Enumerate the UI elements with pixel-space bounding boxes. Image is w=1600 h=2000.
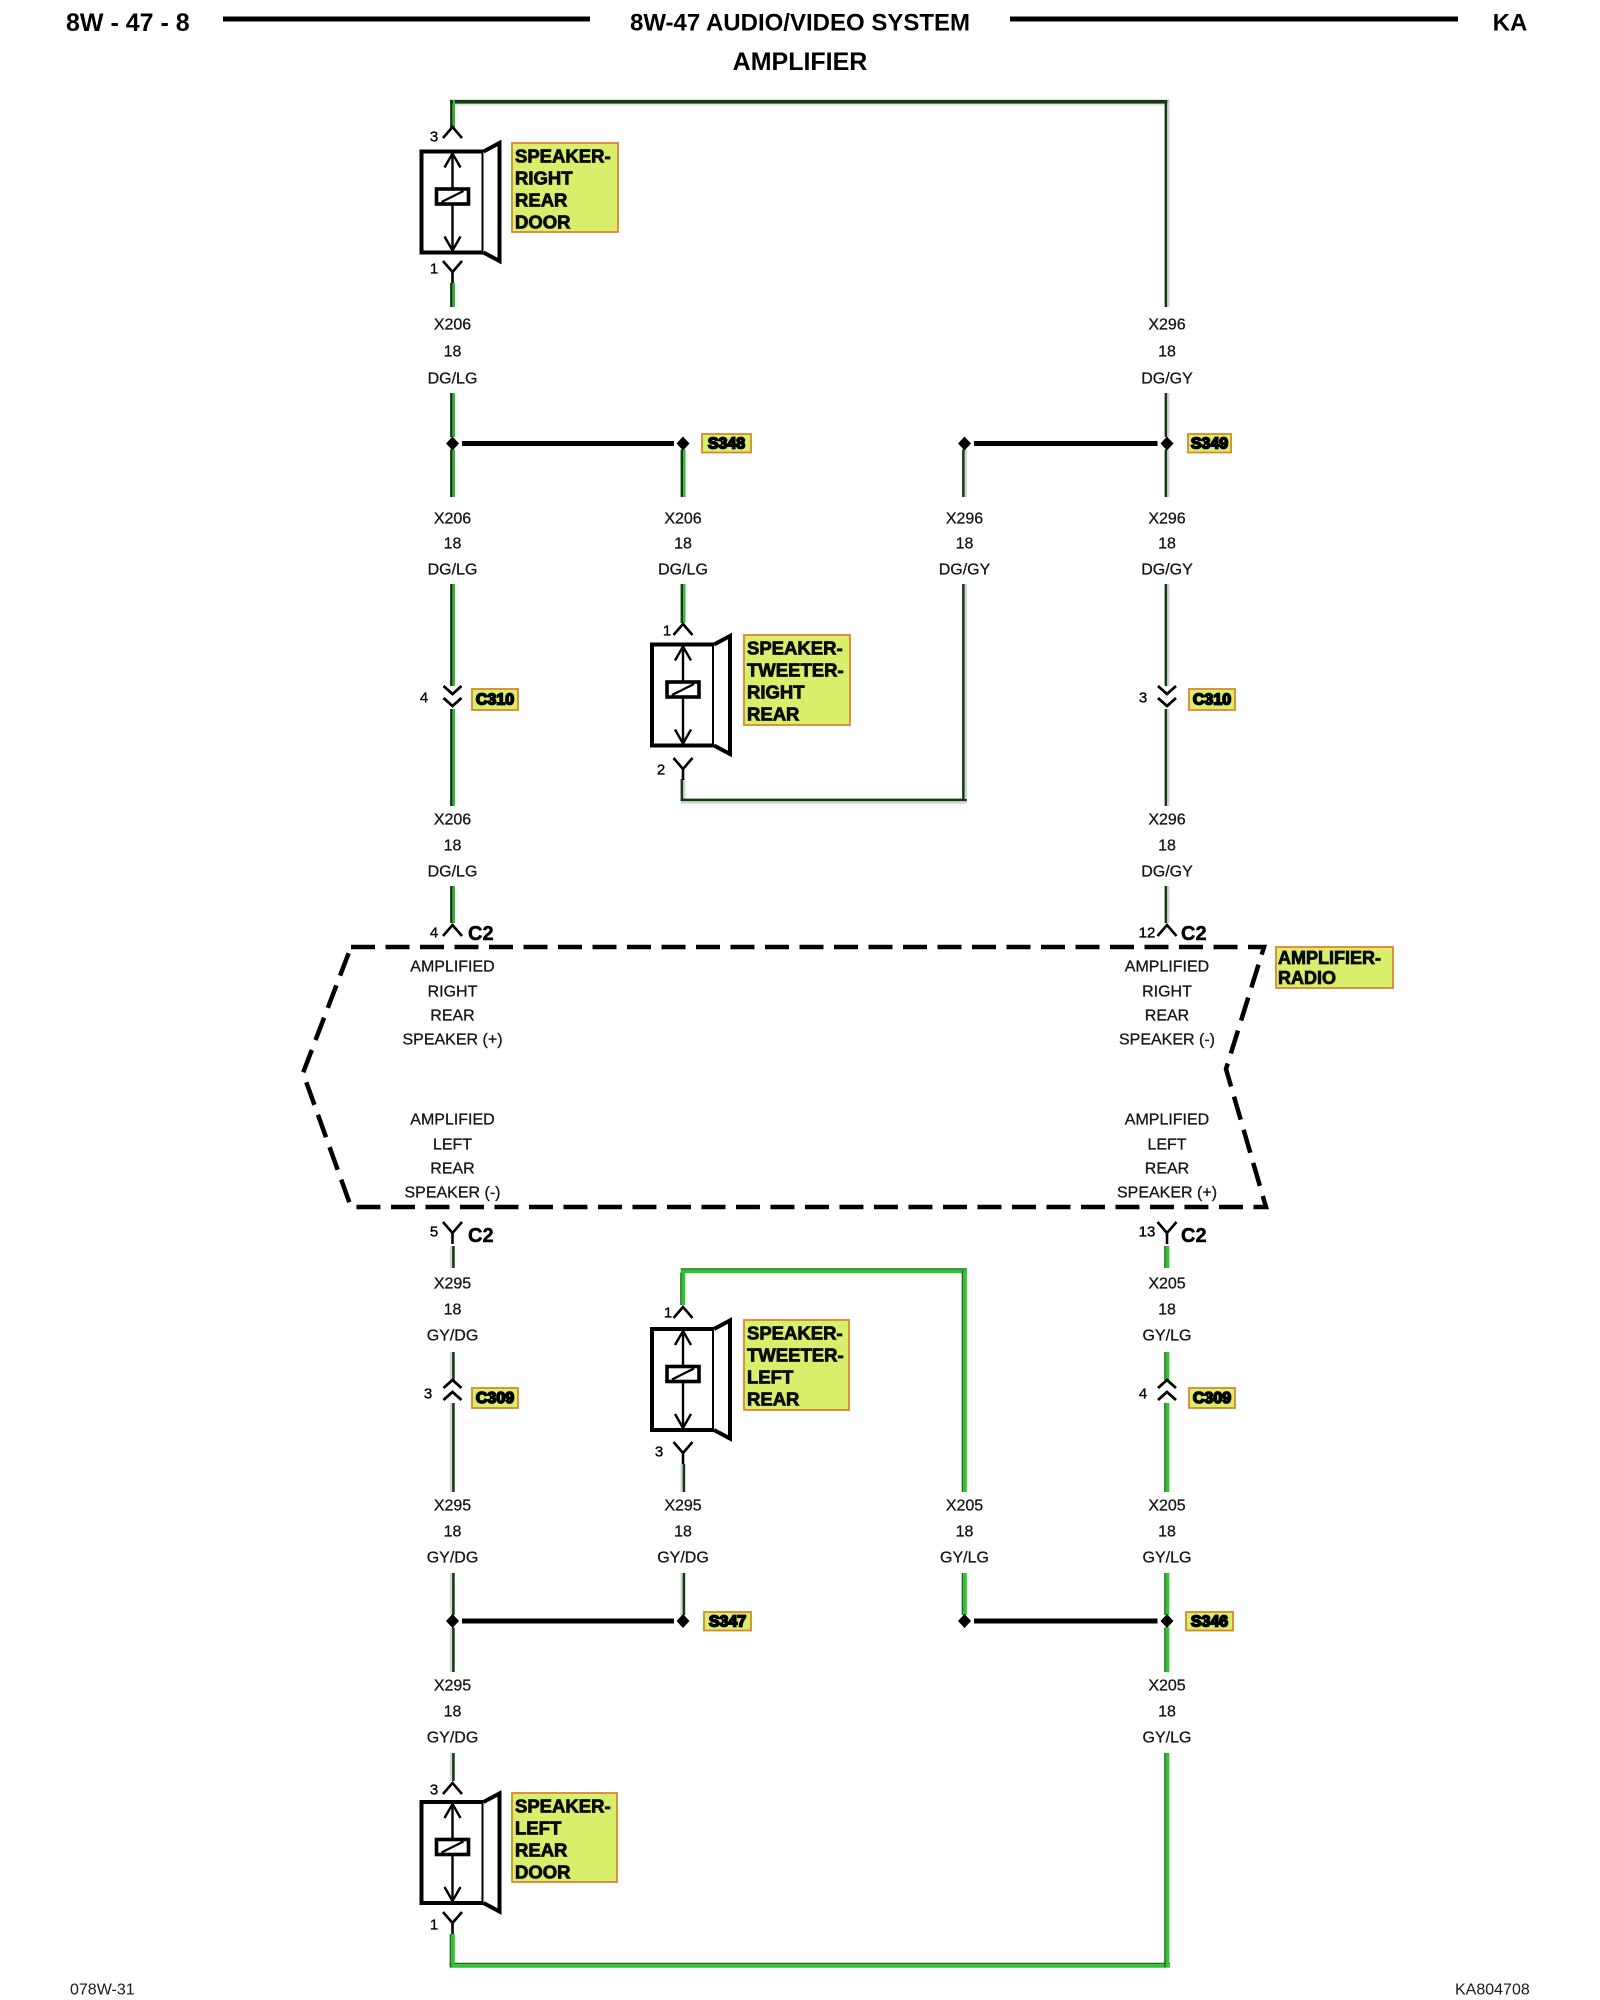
component label speaker tweeter left rear <box>744 1320 849 1410</box>
wire X296 right column top segment <box>1166 100 1169 307</box>
wire X296 stub below S349 left node <box>963 450 966 498</box>
svg-text:AMPLIFIED: AMPLIFIED <box>410 1112 494 1129</box>
svg-text:C309: C309 <box>1193 1390 1231 1407</box>
svg-text:RIGHT: RIGHT <box>428 984 478 1001</box>
svg-text:REAR: REAR <box>430 1161 474 1178</box>
wire X205 above S346 junction <box>1165 1573 1168 1615</box>
wire X206 below S348 junction <box>451 450 454 498</box>
wire label X205 below C309 <box>1143 1498 1192 1567</box>
svg-text:18: 18 <box>956 1524 974 1541</box>
svg-text:SPEAKER-: SPEAKER- <box>515 146 611 167</box>
connector pin 3 speaker right rear door <box>443 127 462 138</box>
wire GY/LG tweeter left pin 1 up to corner <box>681 1273 684 1306</box>
svg-text:S346: S346 <box>1191 1613 1228 1630</box>
wire X205 below C309 <box>1165 1403 1168 1492</box>
svg-text:GY/DG: GY/DG <box>427 1328 479 1345</box>
wire X296 below S349 junction <box>1166 450 1169 498</box>
svg-text:AMPLIFIER-: AMPLIFIER- <box>1278 948 1381 968</box>
svg-text:X205: X205 <box>946 1498 983 1515</box>
svg-text:3: 3 <box>430 129 438 146</box>
svg-text:5: 5 <box>430 1224 438 1241</box>
svg-text:X295: X295 <box>434 1276 471 1293</box>
svg-text:C2: C2 <box>468 1225 494 1247</box>
svg-text:S349: S349 <box>1191 435 1228 452</box>
svg-text:LEFT: LEFT <box>747 1367 794 1388</box>
connector pin 1 speaker right rear door <box>443 261 462 272</box>
wire label X205 below C2 <box>1143 1276 1192 1345</box>
speaker right rear door <box>422 143 500 261</box>
wire speaker left rear door pin 1 down <box>451 1934 454 1967</box>
svg-text:DG/LG: DG/LG <box>428 864 478 881</box>
wire X295 below C309 <box>451 1403 454 1492</box>
svg-text:4: 4 <box>430 925 438 942</box>
svg-text:LEFT: LEFT <box>433 1137 472 1154</box>
component label speaker right rear door <box>512 143 618 233</box>
svg-text:X206: X206 <box>434 317 471 334</box>
wire X295 above S347 right node <box>681 1573 684 1615</box>
wire X206 to tweeter right pin 1 <box>682 584 685 623</box>
wire X295 above C309 <box>451 1352 454 1380</box>
svg-text:S348: S348 <box>708 435 745 452</box>
svg-text:AMPLIFIED: AMPLIFIED <box>1125 959 1209 976</box>
svg-text:18: 18 <box>1158 1524 1176 1541</box>
svg-text:X205: X205 <box>1148 1678 1185 1695</box>
splice line S347 <box>462 1619 674 1624</box>
wire X205 stub above S346 left node <box>963 1573 966 1615</box>
wire X206 between label and C310 <box>451 584 454 686</box>
wire label X206 branch <box>658 511 708 579</box>
wire X295 above S347 junction <box>451 1573 454 1615</box>
svg-text:1: 1 <box>430 1917 438 1934</box>
connector label C310 right <box>1189 689 1235 710</box>
connector label C310 left <box>472 689 518 710</box>
svg-text:REAR: REAR <box>1145 1161 1189 1178</box>
svg-text:18: 18 <box>444 838 462 855</box>
svg-text:GY/LG: GY/LG <box>1143 1730 1192 1747</box>
svg-text:TWEETER-: TWEETER- <box>747 1345 844 1366</box>
wire X295 tweeter left pin 3 down <box>681 1464 684 1492</box>
svg-text:C310: C310 <box>1193 692 1231 709</box>
net amplified right rear speaker plus <box>402 959 502 1049</box>
svg-text:18: 18 <box>1158 1704 1176 1721</box>
connector C2 pin 5 <box>443 1222 462 1233</box>
wire label X206 below S348 <box>428 511 478 579</box>
svg-text:078W-31: 078W-31 <box>70 1982 135 1999</box>
svg-text:REAR: REAR <box>515 190 567 211</box>
wire label X295 below C309 <box>427 1498 479 1567</box>
wire X206 above C2 pin 4 <box>451 886 454 923</box>
svg-text:REAR: REAR <box>515 1840 567 1861</box>
wire label X295 below S347 <box>427 1678 479 1747</box>
svg-text:RIGHT: RIGHT <box>1142 984 1192 1001</box>
wire DG/LG speaker right rear door pin 3 to top corner <box>451 100 454 128</box>
svg-text:SPEAKER (-): SPEAKER (-) <box>1119 1032 1215 1049</box>
speaker tweeter right rear <box>652 636 730 754</box>
svg-text:8W-47 AUDIO/VIDEO SYSTEM: 8W-47 AUDIO/VIDEO SYSTEM <box>630 10 970 37</box>
svg-text:18: 18 <box>956 536 974 553</box>
svg-text:3: 3 <box>424 1386 432 1403</box>
svg-text:TWEETER-: TWEETER- <box>747 660 844 681</box>
svg-text:X206: X206 <box>434 511 471 528</box>
connector C310 pin 4 left <box>444 686 462 706</box>
wire X205 below C2 pin 13 <box>1165 1246 1168 1268</box>
connector label C309 left <box>472 1388 518 1408</box>
connector pin 3 tweeter left rear <box>674 1442 693 1453</box>
splice label S346 <box>1186 1612 1233 1631</box>
svg-text:X295: X295 <box>664 1498 701 1515</box>
svg-text:GY/DG: GY/DG <box>427 1550 479 1567</box>
svg-text:REAR: REAR <box>747 704 799 725</box>
wire GY/LG corner run to mid-right column <box>681 1269 967 1272</box>
node S347 left junction <box>446 1614 459 1628</box>
svg-text:18: 18 <box>444 1704 462 1721</box>
node S349 right junction <box>1161 437 1174 451</box>
svg-text:AMPLIFIED: AMPLIFIED <box>1125 1112 1209 1129</box>
svg-text:DG/GY: DG/GY <box>939 562 991 579</box>
wire X296 above S349 junction <box>1166 393 1169 437</box>
net amplified left rear speaker plus <box>1117 1112 1217 1202</box>
wire label X296 below C310 <box>1141 812 1193 881</box>
svg-text:S347: S347 <box>709 1613 746 1630</box>
wire label X206 below C310 <box>428 812 478 881</box>
splice line S348 <box>462 441 674 446</box>
svg-text:X206: X206 <box>434 812 471 829</box>
svg-text:C309: C309 <box>476 1390 514 1407</box>
svg-text:KA804708: KA804708 <box>1455 1982 1530 1999</box>
node S346 left junction <box>958 1614 971 1628</box>
wire label X206 top <box>428 317 478 388</box>
connector pin 1 tweeter left rear <box>674 1307 693 1318</box>
svg-text:RIGHT: RIGHT <box>515 168 573 189</box>
svg-text:DG/GY: DG/GY <box>1141 371 1193 388</box>
node S348 right junction <box>677 437 690 451</box>
connector pin 1 tweeter right rear <box>674 624 693 635</box>
svg-text:1: 1 <box>663 623 671 640</box>
svg-text:LEFT: LEFT <box>1147 1137 1186 1154</box>
connector pin 3 speaker left rear door <box>443 1783 462 1794</box>
svg-text:X296: X296 <box>1148 317 1185 334</box>
svg-text:REAR: REAR <box>1145 1008 1189 1025</box>
svg-text:X205: X205 <box>1148 1498 1185 1515</box>
wire label X205 mid-right <box>940 1498 989 1567</box>
svg-text:X295: X295 <box>434 1678 471 1695</box>
connector C2 pin 4 <box>443 925 462 936</box>
svg-text:18: 18 <box>1158 1302 1176 1319</box>
component label speaker left rear door <box>512 1793 617 1883</box>
svg-text:18: 18 <box>444 1524 462 1541</box>
svg-text:3: 3 <box>1139 690 1147 707</box>
wire label X296 top <box>1141 317 1193 388</box>
wire tweeter right pin 2 down <box>682 779 685 801</box>
svg-text:DOOR: DOOR <box>515 1862 571 1883</box>
wire label X295 branch <box>657 1498 709 1567</box>
svg-text:X206: X206 <box>664 511 701 528</box>
wire label X295 below C2 <box>427 1276 479 1345</box>
header rule right <box>1010 17 1458 22</box>
svg-text:C2: C2 <box>1181 923 1207 945</box>
svg-text:C2: C2 <box>1181 1225 1207 1247</box>
svg-text:X296: X296 <box>1148 812 1185 829</box>
svg-text:DG/LG: DG/LG <box>428 562 478 579</box>
wire X296 above C2 pin 12 <box>1166 886 1169 923</box>
svg-text:SPEAKER (+): SPEAKER (+) <box>402 1032 502 1049</box>
wire X295 to speaker left rear door pin 3 <box>451 1753 454 1781</box>
connector C2 pin 13 <box>1158 1222 1177 1233</box>
wire label X296 mid-right <box>939 511 991 579</box>
svg-text:3: 3 <box>430 1782 438 1799</box>
wire X296 between label and C310 <box>1166 584 1169 686</box>
svg-text:18: 18 <box>674 1524 692 1541</box>
node S349 left junction <box>958 437 971 451</box>
wire GY/LG mid-right column down <box>963 1271 966 1492</box>
svg-text:SPEAKER-: SPEAKER- <box>515 1796 611 1817</box>
svg-text:2: 2 <box>657 762 665 779</box>
svg-text:DOOR: DOOR <box>515 212 571 233</box>
svg-text:SPEAKER (-): SPEAKER (-) <box>404 1185 500 1202</box>
connector label C309 right <box>1189 1388 1235 1408</box>
wire X295 below S347 junction <box>451 1628 454 1673</box>
svg-text:GY/LG: GY/LG <box>940 1550 989 1567</box>
connector C309 pin 4 right <box>1158 1380 1176 1400</box>
svg-text:13: 13 <box>1139 1224 1156 1241</box>
wire X205 long run to bottom corner <box>1165 1753 1168 1967</box>
splice label S347 <box>704 1612 751 1631</box>
svg-text:DG/LG: DG/LG <box>428 371 478 388</box>
wire label X205 below S346 <box>1143 1678 1192 1747</box>
svg-text:4: 4 <box>420 690 428 707</box>
wire X296 below C310 <box>1166 709 1169 806</box>
speaker tweeter left rear <box>652 1321 730 1439</box>
svg-text:18: 18 <box>444 1302 462 1319</box>
wire X295 below C2 pin 5 <box>451 1246 454 1268</box>
splice line S346 <box>974 1619 1158 1624</box>
connector C310 pin 3 right <box>1158 686 1176 706</box>
svg-text:REAR: REAR <box>747 1389 799 1410</box>
svg-text:X296: X296 <box>946 511 983 528</box>
svg-text:DG/GY: DG/GY <box>1141 864 1193 881</box>
node S346 right junction <box>1161 1614 1174 1628</box>
svg-text:AMPLIFIED: AMPLIFIED <box>410 959 494 976</box>
net amplified left rear speaker minus <box>404 1112 500 1202</box>
svg-text:18: 18 <box>674 536 692 553</box>
svg-text:8W - 47 - 8: 8W - 47 - 8 <box>66 9 190 37</box>
splice label S348 <box>702 434 751 453</box>
svg-text:GY/LG: GY/LG <box>1143 1328 1192 1345</box>
node S348 left junction <box>446 437 459 451</box>
net amplified right rear speaker minus <box>1119 959 1215 1049</box>
wire X206 below speaker pin 1 <box>451 283 454 307</box>
svg-text:18: 18 <box>1158 838 1176 855</box>
connector C2 pin 12 <box>1158 925 1177 936</box>
svg-text:GY/LG: GY/LG <box>1143 1550 1192 1567</box>
connector C309 pin 3 left <box>444 1380 462 1400</box>
svg-text:GY/DG: GY/DG <box>657 1550 709 1567</box>
svg-text:18: 18 <box>1158 536 1176 553</box>
svg-text:C2: C2 <box>468 923 494 945</box>
svg-text:X295: X295 <box>434 1498 471 1515</box>
component label amplifier-radio <box>1276 947 1393 988</box>
wire mid-right column up to S349 <box>963 584 966 799</box>
amplifier-radio dashed outline <box>303 947 1266 1207</box>
svg-text:AMPLIFIER: AMPLIFIER <box>733 48 868 76</box>
svg-text:1: 1 <box>664 1305 672 1322</box>
svg-text:4: 4 <box>1139 1386 1147 1403</box>
svg-text:KA: KA <box>1493 10 1528 37</box>
wire top run to right column <box>450 102 1169 105</box>
wire X205 below S346 junction <box>1165 1628 1168 1673</box>
svg-text:X205: X205 <box>1148 1276 1185 1293</box>
svg-text:SPEAKER (+): SPEAKER (+) <box>1117 1185 1217 1202</box>
svg-text:18: 18 <box>444 344 462 361</box>
svg-text:SPEAKER-: SPEAKER- <box>747 638 843 659</box>
svg-text:DG/GY: DG/GY <box>1141 562 1193 579</box>
wire X206 above S348 junction <box>451 393 454 437</box>
svg-text:REAR: REAR <box>430 1008 474 1025</box>
svg-text:LEFT: LEFT <box>515 1818 562 1839</box>
svg-text:1: 1 <box>430 261 438 278</box>
header rule left <box>223 17 590 22</box>
splice label S349 <box>1188 434 1231 453</box>
wire tweeter right pin 2 run to mid-right column <box>681 800 967 803</box>
svg-text:GY/DG: GY/DG <box>427 1730 479 1747</box>
wire label X296 below S349 <box>1141 511 1193 579</box>
svg-text:18: 18 <box>444 536 462 553</box>
svg-text:RADIO: RADIO <box>1278 968 1336 988</box>
svg-text:12: 12 <box>1139 925 1156 942</box>
splice line S349 <box>974 441 1158 446</box>
svg-text:18: 18 <box>1158 344 1176 361</box>
connector pin 1 speaker left rear door <box>443 1912 462 1923</box>
connector pin 2 tweeter right rear <box>674 758 693 769</box>
svg-text:C310: C310 <box>476 692 514 709</box>
svg-text:X296: X296 <box>1148 511 1185 528</box>
wire X206 S348 branch stub <box>682 450 685 498</box>
wire X206 below C310 <box>451 709 454 806</box>
component label speaker tweeter right rear <box>744 635 850 725</box>
svg-text:DG/LG: DG/LG <box>658 562 708 579</box>
wire bottom run <box>450 1964 1170 1967</box>
speaker left rear door <box>422 1794 500 1912</box>
node S347 right junction <box>677 1614 690 1628</box>
svg-text:3: 3 <box>655 1444 663 1461</box>
wire X205 above C309 <box>1165 1352 1168 1380</box>
svg-text:SPEAKER-: SPEAKER- <box>747 1323 843 1344</box>
svg-text:RIGHT: RIGHT <box>747 682 805 703</box>
